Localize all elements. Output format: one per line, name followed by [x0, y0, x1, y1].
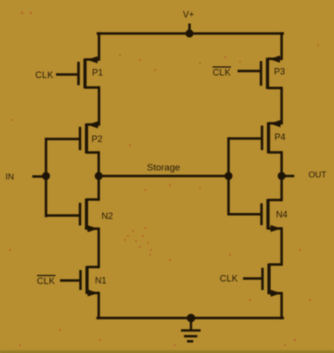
svg-text:CLK: CLK	[220, 274, 238, 284]
transistor N3	[243, 264, 282, 297]
wire: N3 source down to ground rail	[280, 293, 283, 318]
svg-text:P3: P3	[274, 67, 285, 77]
svg-text:P2: P2	[91, 134, 102, 144]
node storage-left junction	[95, 172, 103, 180]
wire: N1 source down to ground rail	[97, 293, 100, 318]
wire: P3 source to P4 drain	[280, 88, 283, 123]
wire: P1 source to P2 drain	[98, 88, 101, 125]
node V+	[183, 10, 194, 38]
transistor P1	[56, 56, 99, 88]
node storage-right junction	[225, 172, 233, 180]
svg-text:N4: N4	[276, 210, 288, 220]
ground	[181, 314, 201, 342]
wire: IN gate vertical (P2/N2 gates)	[45, 139, 48, 216]
bottom edge shading	[0, 350, 334, 353]
svg-text:CLK: CLK	[37, 276, 55, 286]
svg-text:N1: N1	[95, 276, 107, 286]
node OUT junction	[278, 172, 286, 180]
wire: V+ top rail	[98, 32, 283, 35]
wire: OUT node down to N4 drain	[280, 176, 283, 200]
wire: P2 source down to storage node	[97, 153, 100, 177]
svg-text:Storage: Storage	[147, 163, 180, 174]
node IN junction	[42, 172, 50, 180]
wire: IN lead	[34, 175, 47, 178]
transistor N4	[229, 199, 282, 232]
svg-text:OUT: OUT	[309, 170, 327, 180]
wire: storage gate vertical (P4/N4 gates)	[227, 139, 230, 215]
transistor N2	[46, 199, 99, 233]
svg-text:V+: V+	[183, 10, 194, 20]
wire: storage node down to N2 drain	[97, 176, 100, 200]
transistor P3	[238, 56, 282, 90]
transistor P4	[229, 120, 282, 153]
svg-text:CLK: CLK	[213, 68, 231, 78]
wire: N4 source to N3 drain	[280, 229, 283, 265]
svg-text:P1: P1	[92, 68, 103, 78]
label CLKbar (N1 gate)	[37, 276, 56, 287]
svg-text:IN: IN	[6, 172, 15, 182]
svg-text:N2: N2	[102, 211, 114, 221]
wire: ground bottom rail	[98, 317, 283, 320]
transistor N1	[60, 266, 99, 297]
svg-text:P4: P4	[274, 132, 285, 142]
wire: right vertical rail to P3 drain	[280, 34, 283, 59]
wire: storage line	[99, 175, 229, 178]
svg-text:CLK: CLK	[35, 70, 53, 80]
wire: left inner vertical rail to P1 drain	[98, 34, 101, 60]
wire: P4 source down to OUT node	[280, 152, 283, 176]
transistor P2	[46, 121, 99, 153]
wire: N2 source to N1 drain	[97, 229, 100, 267]
label CLKbar (P3 gate)	[213, 67, 232, 78]
wire: OUT lead	[282, 175, 293, 178]
